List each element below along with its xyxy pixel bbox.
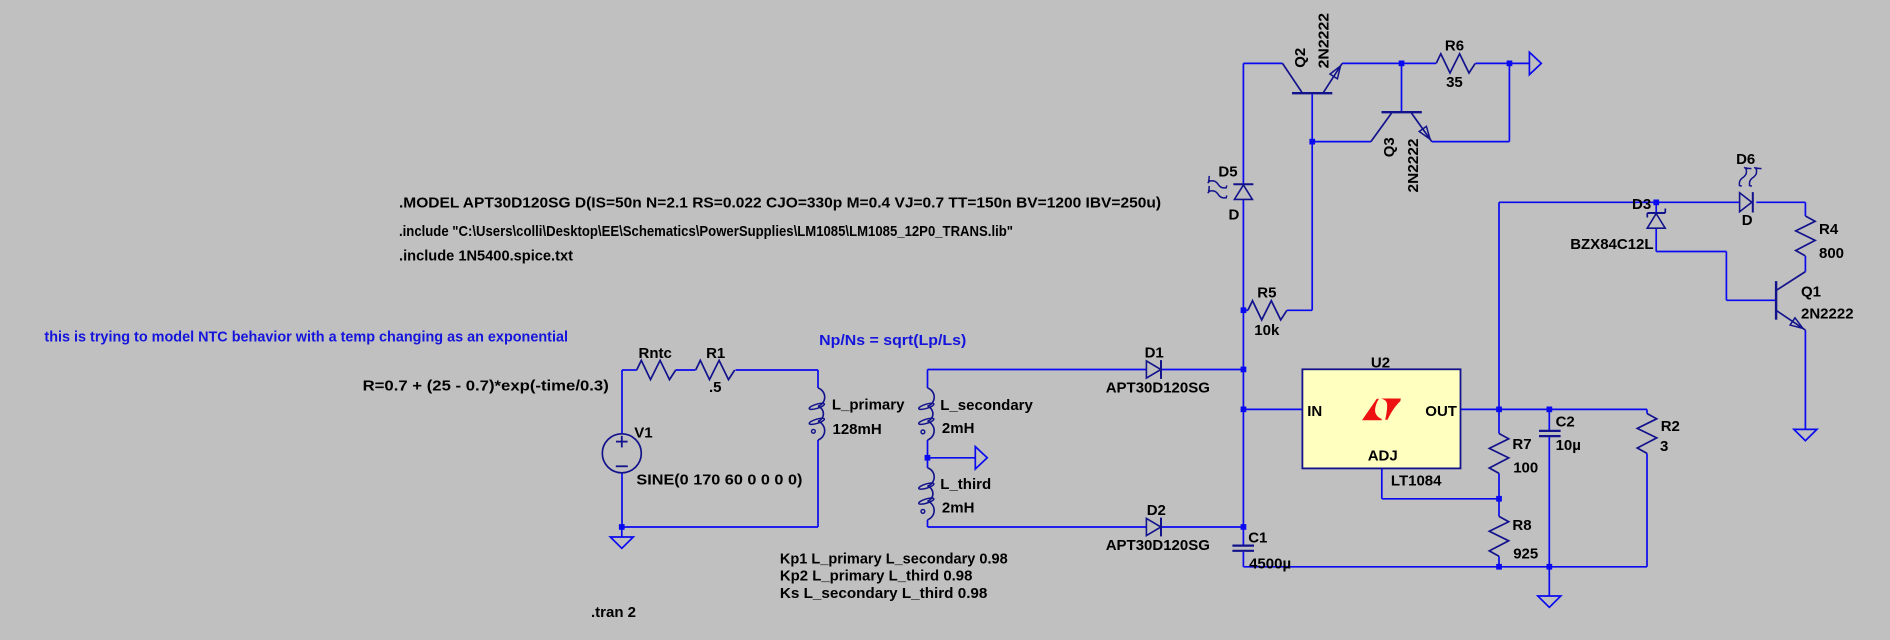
node D3 junction <box>1653 200 1659 206</box>
resistor R2 <box>1637 414 1656 454</box>
transistor Q2 <box>1283 63 1343 93</box>
resistor Rntc <box>637 360 676 379</box>
resistor R6 <box>1436 54 1475 73</box>
svg-text:LT1084: LT1084 <box>1391 473 1442 490</box>
svg-text:L_primary: L_primary <box>832 397 905 414</box>
voltage source V1 <box>602 434 641 473</box>
value C2 10u <box>1556 437 1581 454</box>
directive .include lib <box>399 223 1013 240</box>
svg-text:800: 800 <box>1819 245 1844 262</box>
wire OUT rail <box>1461 408 1648 410</box>
svg-text:2N2222: 2N2222 <box>1405 139 1422 193</box>
svg-text:Q1: Q1 <box>1801 284 1821 301</box>
wire D5 anode down to C1 node <box>1242 200 1244 527</box>
svg-text:R7: R7 <box>1512 436 1531 453</box>
node C2 bottom junction <box>1547 564 1553 570</box>
svg-text:D: D <box>1742 212 1753 229</box>
label L_third <box>940 476 991 493</box>
label D2 <box>1147 502 1166 519</box>
svg-text:D3: D3 <box>1632 196 1651 213</box>
wire Q2 base to Q3 collector <box>1312 141 1371 143</box>
svg-text:OUT: OUT <box>1425 403 1457 420</box>
pin IN <box>1307 403 1322 420</box>
svg-text:3: 3 <box>1660 438 1668 455</box>
label L_primary <box>832 397 905 414</box>
svg-text:Np/Ns = sqrt(Lp/Ls): Np/Ns = sqrt(Lp/Ls) <box>819 332 966 349</box>
wire D3 anode to Q1 base <box>1656 228 1776 300</box>
value SINE <box>636 472 802 489</box>
node OUT junction <box>1496 407 1502 413</box>
wire L_primary bottom <box>817 440 819 527</box>
svg-text:BZX84C12L: BZX84C12L <box>1570 236 1653 253</box>
comment R formula <box>363 378 609 395</box>
wire D2 cathode to node C1 <box>1161 526 1243 528</box>
node C2 top junction <box>1547 407 1553 413</box>
label L_secondary <box>940 397 1033 414</box>
directive Ks <box>780 585 988 602</box>
value L_secondary 2mH <box>942 420 975 437</box>
value D2 APT30D120SG <box>1106 537 1210 554</box>
value R6 35 <box>1446 74 1463 91</box>
wire Q3 base <box>1401 63 1403 112</box>
label R4 <box>1819 221 1839 238</box>
value LT1084 <box>1391 473 1442 490</box>
svg-text:.include "C:\Users\colli\Deskt: .include "C:\Users\colli\Desktop\EE\Sche… <box>399 223 1013 240</box>
LED D5 <box>1208 176 1254 200</box>
resistor R8 <box>1489 516 1508 556</box>
svg-text:R=0.7 + (25 - 0.7)*exp(-time/0: R=0.7 + (25 - 0.7)*exp(-time/0.3) <box>363 378 609 395</box>
label C2 <box>1556 414 1575 431</box>
svg-text:R4: R4 <box>1819 221 1839 238</box>
ground at C2 <box>1538 567 1561 608</box>
svg-text:L_third: L_third <box>940 476 991 493</box>
value Q2 2N2222 <box>1315 13 1332 69</box>
capacitor C2 <box>1539 431 1561 436</box>
label R5 <box>1257 285 1276 302</box>
svg-text:2mH: 2mH <box>942 420 975 437</box>
value Q1 2N2222 <box>1801 306 1854 323</box>
wire C2 top lead <box>1548 409 1550 430</box>
resistor R7 <box>1489 434 1508 474</box>
svg-text:D2: D2 <box>1147 502 1166 519</box>
value R4 800 <box>1819 245 1844 262</box>
wire Rntc to R1 <box>676 369 696 371</box>
label D1 <box>1145 344 1164 361</box>
svg-text:APT30D120SG: APT30D120SG <box>1106 537 1210 554</box>
svg-text:2mH: 2mH <box>942 500 975 517</box>
svg-text:D: D <box>1229 207 1240 224</box>
svg-text:2N2222: 2N2222 <box>1315 13 1332 69</box>
value R2 3 <box>1660 438 1668 455</box>
svg-text:R1: R1 <box>706 345 725 362</box>
svg-text:10µ: 10µ <box>1556 437 1581 454</box>
comment Np/Ns <box>819 332 966 349</box>
value Q3 2N2222 <box>1405 139 1422 193</box>
inductor L_secondary <box>918 388 934 440</box>
wire IN feed <box>1243 408 1302 410</box>
label R2 <box>1661 418 1680 435</box>
label D6 <box>1736 151 1755 168</box>
transistor Q3 <box>1371 112 1432 141</box>
label Rntc <box>639 345 672 362</box>
ground at Q1 emitter <box>1794 429 1817 440</box>
pin OUT <box>1425 403 1457 420</box>
wire L_secondary bottom / center tap <box>927 440 929 468</box>
value L_third 2mH <box>942 500 975 517</box>
wire R4 bottom to Q1 collector <box>1804 256 1806 272</box>
svg-text:R8: R8 <box>1512 517 1531 534</box>
svg-text:925: 925 <box>1513 546 1538 563</box>
wire V1 bottom <box>621 473 623 527</box>
directive .include 1N5400 <box>399 247 573 264</box>
label D5 <box>1218 164 1237 181</box>
wire D1 cathode to node IN-top <box>1161 369 1243 371</box>
diode D2 <box>1146 518 1161 537</box>
directive Kp2 <box>780 567 973 584</box>
wire D6 cathode to R4 top <box>1756 202 1805 216</box>
wire center tap to port <box>928 457 976 459</box>
value D1 APT30D120SG <box>1106 380 1210 397</box>
capacitor C1 <box>1232 527 1254 567</box>
node R5 junction <box>1241 307 1247 313</box>
node Q2 base junction <box>1309 139 1315 145</box>
value R8 925 <box>1513 546 1538 563</box>
wire R5 leads <box>1243 309 1312 311</box>
label D3 <box>1632 196 1651 213</box>
transistor Q1 <box>1776 272 1805 331</box>
svg-text:.MODEL APT30D120SG D(IS=50n N=: .MODEL APT30D120SG D(IS=50n N=2.1 RS=0.0… <box>399 195 1161 212</box>
label Q1 <box>1801 284 1821 301</box>
svg-text:IN: IN <box>1307 403 1322 420</box>
svg-text:Q2: Q2 <box>1292 48 1309 68</box>
node R8 bottom junction <box>1496 564 1502 570</box>
comment NTC behavior <box>44 328 568 345</box>
label R1 <box>706 345 725 362</box>
svg-text:D5: D5 <box>1218 164 1237 181</box>
svg-text:R2: R2 <box>1661 418 1680 435</box>
resistor R5 <box>1248 301 1287 320</box>
svg-text:C1: C1 <box>1248 530 1267 547</box>
wire R8 leads <box>1498 499 1500 567</box>
svg-text:10k: 10k <box>1254 322 1280 339</box>
directive .MODEL <box>399 195 1161 212</box>
wire V1 top to Rntc <box>622 370 637 434</box>
label R8 <box>1512 517 1531 534</box>
wire L_third bottom to D2 anode <box>928 520 1147 527</box>
wire bottom of left loop <box>622 526 818 528</box>
value R1 .5 <box>709 379 722 396</box>
node ADJ junction <box>1496 496 1502 502</box>
directive .tran <box>591 604 636 621</box>
svg-text:C2: C2 <box>1556 414 1575 431</box>
label Q3 <box>1381 137 1398 157</box>
op-amp U2 box <box>1302 369 1460 468</box>
value D6 D <box>1742 212 1753 229</box>
port arrow at center tap <box>975 447 987 469</box>
svg-text:.include 1N5400.spice.txt: .include 1N5400.spice.txt <box>399 247 573 264</box>
node center tap junction <box>925 455 931 461</box>
node R6 right junction <box>1507 61 1513 67</box>
wire R1 to L_primary top <box>736 370 819 388</box>
node D1 junction <box>1241 367 1247 373</box>
LED D6 <box>1739 167 1761 212</box>
svg-text:R5: R5 <box>1257 285 1276 302</box>
wire D3 cathode lead <box>1655 202 1657 212</box>
svg-text:2N2222: 2N2222 <box>1801 306 1854 323</box>
wire bottom rail C1 to R2 <box>1243 566 1647 568</box>
value 128mH <box>833 421 882 438</box>
svg-text:Q3: Q3 <box>1381 137 1398 157</box>
svg-text:128mH: 128mH <box>833 421 882 438</box>
wire OUT up to top-right rail <box>1499 202 1740 409</box>
node V1- / ground junction <box>619 524 625 530</box>
svg-text:35: 35 <box>1446 74 1463 91</box>
wire R2 leads <box>1646 409 1648 566</box>
svg-text:V1: V1 <box>634 425 652 442</box>
label C1 <box>1248 530 1267 547</box>
svg-text:APT30D120SG: APT30D120SG <box>1106 380 1210 397</box>
node C1 junction <box>1241 524 1247 530</box>
label R7 <box>1512 436 1531 453</box>
wire top-left corner to D5 cathode <box>1243 63 1282 184</box>
port arrow after R6 <box>1529 52 1541 74</box>
label U2 <box>1371 355 1390 372</box>
value BZX84C12L <box>1570 236 1653 253</box>
inductor L_third <box>918 468 934 520</box>
node IN junction <box>1241 407 1247 413</box>
svg-text:ADJ: ADJ <box>1368 447 1398 464</box>
diode D1 <box>1146 360 1161 379</box>
svg-text:Kp2 L_primary L_third 0.98: Kp2 L_primary L_third 0.98 <box>780 567 973 584</box>
svg-text:U2: U2 <box>1371 355 1390 372</box>
wire R6 right lead to port node <box>1475 62 1529 64</box>
LT logo <box>1362 399 1401 421</box>
wire ADJ <box>1382 468 1499 498</box>
value R5 10k <box>1254 322 1280 339</box>
wire C2 bottom lead <box>1548 437 1550 567</box>
inductor L_primary <box>809 388 825 440</box>
resistor R4 <box>1796 216 1815 256</box>
svg-text:Rntc: Rntc <box>639 345 672 362</box>
wire R7 leads <box>1498 409 1500 498</box>
wire R6 node down to Q3 emitter <box>1432 63 1510 141</box>
value D5 D <box>1229 207 1240 224</box>
svg-text:D6: D6 <box>1736 151 1755 168</box>
value R7 100 <box>1513 460 1538 477</box>
svg-text:4500µ: 4500µ <box>1249 556 1291 573</box>
svg-text:this is trying to model NTC be: this is trying to model NTC behavior wit… <box>44 328 568 345</box>
svg-text:D1: D1 <box>1145 344 1164 361</box>
wire Q1 emitter to ground <box>1804 330 1806 429</box>
svg-text:L_secondary: L_secondary <box>940 397 1033 414</box>
diode D3 zener <box>1647 209 1665 229</box>
svg-text:Ks L_secondary L_third 0.98: Ks L_secondary L_third 0.98 <box>780 585 988 602</box>
svg-text:100: 100 <box>1513 460 1538 477</box>
wire R6 left lead <box>1402 62 1437 64</box>
pin ADJ <box>1368 447 1398 464</box>
node Q3 base junction <box>1399 61 1405 67</box>
label V1 <box>634 425 652 442</box>
svg-text:R6: R6 <box>1445 38 1464 55</box>
ground at V1 <box>610 527 633 548</box>
label Q2 <box>1292 48 1309 68</box>
directive Kp1 <box>780 550 1008 567</box>
svg-text:SINE(0 170 60 0 0 0 0): SINE(0 170 60 0 0 0 0) <box>636 472 802 489</box>
svg-text:.5: .5 <box>709 379 722 396</box>
wire L_secondary top to D1 anode <box>928 370 1147 389</box>
svg-text:.tran 2: .tran 2 <box>591 604 636 621</box>
wire Q2 emitter to R6 node <box>1342 62 1401 64</box>
resistor R1 <box>696 360 735 379</box>
value C1 4500u <box>1249 556 1291 573</box>
label R6 <box>1445 38 1464 55</box>
svg-text:Kp1 L_primary L_secondary 0.98: Kp1 L_primary L_secondary 0.98 <box>780 550 1008 567</box>
wire Q2 base down to R5 <box>1311 94 1313 310</box>
